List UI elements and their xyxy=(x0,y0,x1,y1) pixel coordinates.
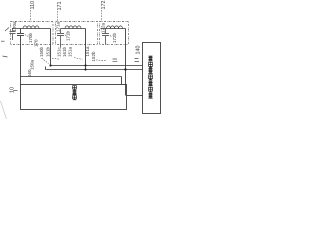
svg-text:160: 160 xyxy=(27,69,32,77)
svg-text:110: 110 xyxy=(30,1,36,10)
svg-text:151b: 151b xyxy=(46,46,51,57)
svg-text:150a: 150a xyxy=(29,59,34,70)
svg-text:170: 170 xyxy=(33,39,38,47)
svg-text:151a: 151a xyxy=(68,46,73,57)
svg-text:172: 172 xyxy=(101,1,107,10)
svg-text:171: 171 xyxy=(57,2,63,11)
svg-text:151c: 151c xyxy=(56,46,61,57)
svg-text:170b: 170b xyxy=(28,32,33,43)
svg-text:171b: 171b xyxy=(66,30,71,41)
svg-text:10: 10 xyxy=(9,87,15,93)
svg-text:150b: 150b xyxy=(39,46,44,57)
svg-text:172b: 172b xyxy=(112,32,117,43)
svg-text:161b: 161b xyxy=(62,46,67,57)
svg-text:170a: 170a xyxy=(12,21,17,32)
svg-text:152b: 152b xyxy=(91,51,96,62)
svg-text:151a: 151a xyxy=(85,46,90,57)
svg-text:172a: 172a xyxy=(101,22,106,33)
svg-text:171a: 171a xyxy=(55,21,60,32)
svg-text:140: 140 xyxy=(135,46,141,55)
